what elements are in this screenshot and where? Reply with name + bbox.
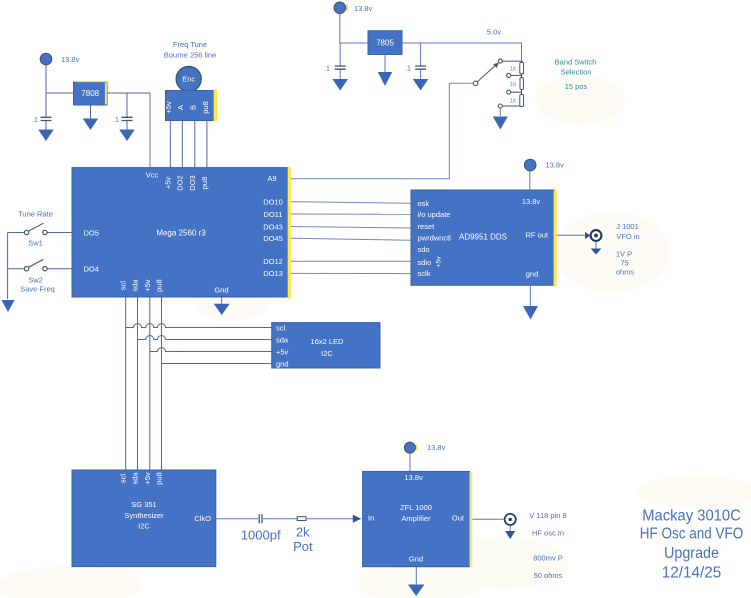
svg-text:scl: scl [276,323,286,332]
svg-text:gnd: gnd [276,359,289,368]
svg-text:Sw1: Sw1 [28,238,43,247]
svg-text:13.8v: 13.8v [546,160,565,169]
svg-text:Out: Out [452,514,465,523]
svg-text:sda: sda [131,472,140,485]
svg-text:AD9951 DDS: AD9951 DDS [459,232,507,241]
svg-text:Band Switch: Band Switch [555,58,597,67]
svg-text:pu8: pu8 [201,101,210,114]
svg-text:HF osc In: HF osc In [532,528,564,537]
svg-text:7808: 7808 [81,89,99,98]
svg-text:sda: sda [131,279,140,292]
svg-text:1V P: 1V P [616,249,632,258]
svg-text:1k: 1k [510,65,518,72]
svg-text:Enc: Enc [182,75,195,84]
svg-text:Bourne 256 line: Bourne 256 line [164,51,217,60]
svg-text:Mackay 3010C: Mackay 3010C [642,508,741,525]
svg-text:reset: reset [418,222,436,231]
svg-text:.1: .1 [405,66,411,73]
svg-text:.1: .1 [113,117,119,124]
svg-text:pu8: pu8 [155,472,164,485]
svg-text:VFO in: VFO in [616,232,639,241]
svg-text:5.0v: 5.0v [487,28,501,37]
svg-text:+5v: +5v [163,177,172,190]
svg-text:.1: .1 [32,117,38,124]
svg-text:HF Osc and VFO: HF Osc and VFO [640,526,744,543]
svg-text:2k: 2k [296,525,310,540]
svg-text:Mega 2560 r3: Mega 2560 r3 [156,228,206,237]
svg-text:1k: 1k [510,98,518,105]
svg-text:DO12: DO12 [263,257,283,266]
svg-text:pu8: pu8 [155,279,164,292]
svg-text:12/14/25: 12/14/25 [662,565,722,582]
svg-text:+5v: +5v [143,472,152,485]
svg-text:DO5: DO5 [84,228,99,237]
svg-text:A: A [176,105,185,110]
svg-text:ClkO: ClkO [194,514,211,523]
svg-text:sda: sda [276,335,289,344]
svg-text:13.8v: 13.8v [404,473,423,482]
svg-text:Gnd: Gnd [214,285,228,294]
svg-text:1k: 1k [510,81,518,88]
svg-text:DO11: DO11 [263,210,282,219]
svg-text:sdo: sdo [418,245,430,254]
svg-text:pu8: pu8 [200,177,209,190]
svg-text:DO10: DO10 [263,197,283,206]
svg-text:J 1001: J 1001 [616,222,639,231]
svg-text:DO45: DO45 [263,234,283,243]
svg-text:+5v: +5v [143,279,152,292]
svg-text:i/o update: i/o update [418,210,451,219]
svg-text:16x2 LED: 16x2 LED [311,337,345,346]
svg-text:I2C: I2C [138,522,150,531]
svg-text:7805: 7805 [376,39,394,48]
svg-text:800mv P: 800mv P [533,553,563,562]
svg-text:Synthesizer: Synthesizer [124,511,164,520]
svg-text:Vcc: Vcc [146,171,159,180]
svg-text:+5v: +5v [435,256,442,267]
svg-text:Tune Rate: Tune Rate [18,209,53,218]
svg-text:50 ohms: 50 ohms [534,571,563,580]
svg-text:RF out: RF out [525,230,548,239]
svg-text:A9: A9 [267,174,276,183]
svg-text:Freq Tune: Freq Tune [173,40,207,49]
svg-text:SG 351: SG 351 [131,500,156,509]
svg-text:In: In [368,514,374,523]
svg-text:+5v: +5v [276,347,289,356]
svg-text:1000pf: 1000pf [241,528,281,543]
svg-text:Selection: Selection [561,68,592,77]
svg-text:gnd: gnd [526,269,539,278]
svg-text:pwrdwnctl: pwrdwnctl [418,234,452,243]
svg-text:B: B [188,105,197,110]
svg-text:sclk: sclk [418,269,431,278]
svg-text:13.8v: 13.8v [522,197,541,206]
svg-text:DO2: DO2 [175,175,184,190]
svg-text:75: 75 [620,258,628,267]
svg-text:osk: osk [418,199,430,208]
svg-text:Pot: Pot [293,539,313,554]
svg-text:.1: .1 [324,66,330,73]
svg-text:Sw2: Sw2 [28,275,43,284]
svg-text:DO43: DO43 [263,222,283,231]
svg-text:ZFL 1000: ZFL 1000 [400,503,432,512]
svg-text:DO13: DO13 [263,269,283,278]
svg-text:V 118 pin 8: V 118 pin 8 [529,511,566,520]
svg-text:Upgrade: Upgrade [664,545,719,562]
svg-text:Gnd: Gnd [409,555,423,564]
svg-text:ohms: ohms [616,267,635,276]
svg-text:+5v: +5v [164,101,173,114]
svg-text:scl: scl [119,474,128,484]
svg-text:scl: scl [119,281,128,291]
svg-text:Amplifier: Amplifier [401,514,431,523]
svg-text:15 pos: 15 pos [565,82,588,91]
svg-text:DO3: DO3 [188,175,197,190]
svg-text:sdio: sdio [418,258,432,267]
svg-text:13.8v: 13.8v [61,55,80,64]
svg-text:Save Freq: Save Freq [20,284,55,293]
svg-text:DO4: DO4 [84,265,99,274]
svg-text:13.8v: 13.8v [427,443,446,452]
svg-text:I2C: I2C [321,349,333,358]
svg-text:13.8v: 13.8v [354,4,373,13]
